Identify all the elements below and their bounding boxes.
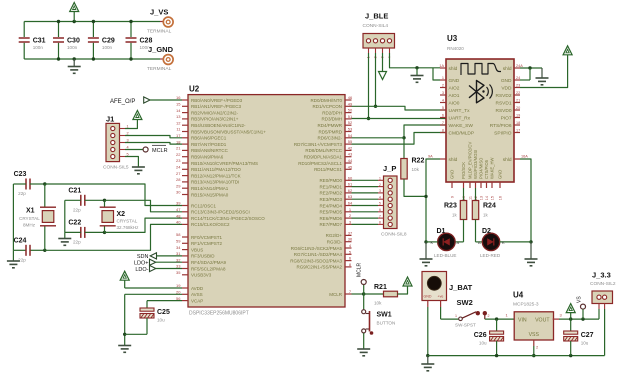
svg-text:7: 7 — [379, 214, 381, 218]
svg-text:10u: 10u — [157, 318, 165, 323]
svg-text:MLDP_EV/PIO2/CV: MLDP_EV/PIO2/CV — [468, 142, 473, 179]
svg-text:RSVD1: RSVD1 — [496, 100, 512, 106]
svg-text:J_BAT: J_BAT — [449, 283, 473, 292]
svg-text:19: 19 — [516, 114, 520, 118]
svg-text:RC13/C3IN3-/PGED2/SOSCI: RC13/C3IN3-/PGED2/SOSCI — [191, 210, 250, 215]
svg-text:UART_Rx: UART_Rx — [449, 115, 471, 121]
svg-text:64: 64 — [348, 201, 353, 206]
svg-text:LDO-: LDO- — [135, 267, 148, 273]
svg-text:CMD/MLDP: CMD/MLDP — [449, 130, 475, 136]
svg-text:RG7/C1IN1-/SD2/PMA4: RG7/C1IN1-/SD2/PMA4 — [294, 252, 343, 257]
svg-text:AVDD: AVDD — [191, 286, 204, 291]
svg-text:32.768kHz: 32.768kHz — [117, 225, 140, 230]
svg-text:8MHz: 8MHz — [23, 223, 36, 228]
svg-text:28: 28 — [176, 177, 181, 182]
svg-text:4: 4 — [379, 195, 381, 199]
svg-text:27: 27 — [176, 171, 181, 176]
svg-text:RB12/AN12/PMA11/TCK: RB12/AN12/PMA11/TCK — [191, 173, 241, 178]
svg-text:VCAP: VCAP — [191, 298, 203, 303]
svg-text:CRYSTAL: CRYSTAL — [19, 216, 40, 221]
svg-text:C27: C27 — [581, 332, 594, 339]
svg-text:PIO/SCK: PIO/SCK — [461, 162, 466, 179]
svg-text:DSPIC33EP256MU806IPT: DSPIC33EP256MU806IPT — [189, 311, 249, 317]
svg-text:RD9/DPLN/ASDA1: RD9/DPLN/ASDA1 — [304, 155, 343, 160]
svg-text:J_P: J_P — [383, 164, 396, 173]
svg-text:6: 6 — [379, 208, 381, 212]
svg-text:RSVD2: RSVD2 — [496, 93, 512, 99]
svg-text:36: 36 — [348, 237, 353, 242]
svg-text:43: 43 — [348, 152, 353, 157]
svg-text:R23: R23 — [444, 203, 457, 210]
svg-text:GND: GND — [450, 170, 455, 179]
svg-text:RE4/PMD4: RE4/PMD4 — [319, 203, 342, 208]
svg-text:21: 21 — [516, 99, 520, 103]
svg-text:4: 4 — [442, 99, 444, 103]
svg-text:1k: 1k — [483, 213, 488, 218]
svg-text:RB2/VMIO/AN2/C2IN2-: RB2/VMIO/AN2/C2IN2- — [191, 110, 239, 115]
svg-text:GND: GND — [498, 170, 503, 179]
svg-text:VUSB3V3: VUSB3V3 — [191, 273, 212, 278]
svg-text:35: 35 — [176, 270, 181, 275]
svg-text:GND: GND — [501, 78, 512, 84]
svg-text:58: 58 — [176, 232, 181, 237]
svg-text:2: 2 — [379, 183, 381, 187]
svg-text:RTS/PIO6: RTS/PIO6 — [490, 123, 512, 129]
svg-text:14: 14 — [176, 108, 181, 113]
svg-text:VBUS: VBUS — [191, 247, 203, 252]
svg-text:RB11/AN11/PMA12/TDO: RB11/AN11/PMA12/TDO — [191, 167, 241, 172]
svg-text:24: 24 — [516, 76, 520, 80]
svg-text:100n: 100n — [67, 45, 78, 50]
svg-text:RD7/C3IN1+/VCMPST3: RD7/C3IN1+/VCMPST3 — [294, 142, 343, 147]
svg-text:MCLR: MCLR — [357, 262, 363, 277]
svg-text:59: 59 — [176, 239, 181, 244]
svg-text:RG2/D+: RG2/D+ — [326, 233, 343, 238]
svg-text:24: 24 — [176, 165, 181, 170]
svg-text:RN4020: RN4020 — [447, 46, 464, 51]
svg-text:30: 30 — [176, 190, 181, 195]
svg-text:RF0/VCMPST1: RF0/VCMPST1 — [191, 235, 223, 240]
svg-text:7: 7 — [442, 121, 444, 125]
svg-text:SW1: SW1 — [377, 312, 392, 319]
svg-text:RE6/PMD6: RE6/PMD6 — [319, 216, 342, 221]
svg-text:C31: C31 — [33, 38, 46, 45]
svg-text:10u: 10u — [581, 341, 589, 346]
svg-text:50: 50 — [348, 108, 353, 113]
svg-text:J_BLE: J_BLE — [365, 12, 388, 21]
svg-text:8: 8 — [442, 129, 444, 133]
svg-text:RB7/AN7/PGED1: RB7/AN7/PGED1 — [191, 142, 227, 147]
svg-text:SW2: SW2 — [457, 298, 473, 307]
svg-text:AIO2: AIO2 — [449, 85, 460, 91]
svg-text:K: K — [431, 240, 434, 245]
svg-text:J1: J1 — [106, 115, 114, 124]
svg-text:UART_Tx: UART_Tx — [449, 108, 471, 114]
svg-text:VSS: VSS — [529, 332, 540, 338]
svg-text:GND: GND — [449, 78, 460, 84]
svg-text:RB5/VBUSON/VBUSST/AN5/C1IN1+: RB5/VBUSON/VBUSST/AN5/C1IN1+ — [191, 129, 266, 134]
svg-text:15: 15 — [491, 196, 495, 200]
svg-text:RD1/VCPCON: RD1/VCPCON — [312, 104, 342, 109]
svg-text:RD5/PMRD: RD5/PMRD — [318, 129, 342, 134]
svg-text:AIO1: AIO1 — [449, 93, 460, 99]
svg-text:R22: R22 — [412, 158, 425, 165]
svg-text:CONN-SIL5: CONN-SIL5 — [103, 165, 129, 171]
svg-text:RB6/AN6/PGEC1: RB6/AN6/PGEC1 — [191, 136, 227, 141]
svg-text:29: 29 — [176, 183, 181, 188]
svg-text:CONN-SIL8: CONN-SIL8 — [381, 232, 407, 238]
svg-text:RF3/USBID: RF3/USBID — [191, 254, 215, 259]
svg-text:100n: 100n — [33, 45, 44, 50]
svg-text:MCLR: MCLR — [329, 292, 343, 297]
svg-text:5: 5 — [379, 202, 381, 206]
svg-text:49: 49 — [348, 101, 353, 106]
svg-text:shld: shld — [449, 157, 458, 163]
svg-text:45: 45 — [348, 164, 353, 169]
svg-text:RF4/SDA2/PMA9: RF4/SDA2/PMA9 — [191, 260, 227, 265]
svg-text:RE3/PMD3: RE3/PMD3 — [319, 197, 342, 202]
svg-text:34: 34 — [176, 245, 181, 250]
svg-text:SW-SPST: SW-SPST — [455, 323, 476, 328]
svg-text:RD6/C3IN2-: RD6/C3IN2- — [317, 136, 342, 141]
svg-text:CONN-SIL2: CONN-SIL2 — [590, 281, 616, 287]
svg-text:TERMINAL: TERMINAL — [147, 29, 172, 35]
svg-text:CTS/PIO5: CTS/PIO5 — [484, 159, 489, 179]
svg-text:RB14/AN14/PMA1: RB14/AN14/PMA1 — [191, 186, 229, 191]
svg-text:14: 14 — [485, 196, 489, 200]
svg-text:18: 18 — [516, 121, 520, 125]
svg-text:10k: 10k — [374, 301, 382, 306]
svg-text:RC15/CLKO/OSC2: RC15/CLKO/OSC2 — [191, 222, 230, 227]
svg-text:53: 53 — [348, 127, 353, 132]
svg-text:3: 3 — [442, 91, 444, 95]
svg-text:LED-BLUE: LED-BLUE — [434, 253, 456, 258]
svg-text:2: 2 — [488, 314, 490, 318]
svg-text:60: 60 — [348, 175, 353, 180]
svg-text:22p: 22p — [73, 207, 81, 212]
svg-text:J_3.3: J_3.3 — [592, 271, 611, 280]
svg-text:RB8/AN8/NIRTCC: RB8/AN8/NIRTCC — [191, 148, 229, 153]
svg-text:A: A — [478, 240, 481, 245]
svg-text:PIO4/MISO: PIO4/MISO — [479, 157, 484, 179]
svg-text:62: 62 — [348, 188, 353, 193]
svg-text:WS/PIO3/MOSI: WS/PIO3/MOSI — [473, 150, 478, 179]
svg-text:15: 15 — [176, 102, 181, 107]
svg-text:RD0/DMH/INT0: RD0/DMH/INT0 — [310, 98, 342, 103]
svg-text:1: 1 — [379, 177, 381, 181]
svg-text:A: A — [457, 240, 460, 245]
svg-text:TERMINAL: TERMINAL — [147, 66, 172, 72]
svg-text:22p: 22p — [18, 191, 26, 196]
svg-text:LED-RED: LED-RED — [480, 253, 501, 258]
svg-text:13: 13 — [176, 114, 181, 119]
svg-text:RB10/AN10/CVREF/PMA13/TMS: RB10/AN10/CVREF/PMA13/TMS — [191, 161, 258, 166]
svg-text:X2: X2 — [117, 211, 126, 218]
svg-text:2: 2 — [442, 84, 444, 88]
svg-text:VIN: VIN — [518, 318, 527, 324]
svg-text:RG6/C1IN3-/SCK2/PMA5: RG6/C1IN3-/SCK2/PMA5 — [291, 246, 343, 251]
svg-text:RC12/OSC1: RC12/OSC1 — [191, 203, 217, 208]
svg-text:PIO7: PIO7 — [501, 115, 512, 121]
svg-text:37: 37 — [348, 230, 353, 235]
svg-text:RB1/AN1/VREF-/PGEC3: RB1/AN1/VREF-/PGEC3 — [191, 104, 242, 109]
svg-text:16A: 16A — [521, 155, 528, 159]
svg-text:CRYSTAL: CRYSTAL — [117, 219, 138, 224]
svg-text:C25: C25 — [157, 309, 170, 316]
svg-text:63: 63 — [348, 194, 353, 199]
svg-text:10k: 10k — [412, 167, 420, 172]
svg-text:42: 42 — [348, 145, 353, 150]
svg-text:6: 6 — [442, 114, 444, 118]
svg-text:46: 46 — [348, 95, 353, 100]
svg-text:VDD: VDD — [501, 85, 512, 91]
svg-text:U2: U2 — [189, 85, 200, 94]
svg-text:D2: D2 — [482, 228, 491, 235]
svg-text:22: 22 — [176, 152, 181, 157]
svg-text:17: 17 — [516, 129, 520, 133]
svg-text:RD2/DPH: RD2/DPH — [322, 110, 342, 115]
svg-text:21: 21 — [176, 146, 181, 151]
svg-text:9: 9 — [451, 196, 455, 198]
svg-text:WAKE_HW: WAKE_HW — [490, 157, 495, 179]
svg-text:RB4/USBOEN/AN4/C1IN2-: RB4/USBOEN/AN4/C1IN2- — [191, 123, 246, 128]
svg-text:R24: R24 — [483, 203, 496, 210]
svg-text:44: 44 — [348, 158, 353, 163]
svg-text:RE2/PMD2: RE2/PMD2 — [319, 191, 342, 196]
svg-text:MCLR: MCLR — [152, 148, 168, 154]
svg-text:RE1/PMD1: RE1/PMD1 — [319, 184, 342, 189]
svg-text:RB0/AN0/VREF+/PGED3: RB0/AN0/VREF+/PGED3 — [191, 98, 243, 103]
svg-text:100n: 100n — [102, 45, 113, 50]
svg-text:C23: C23 — [14, 171, 27, 178]
svg-text:VS: VS — [577, 296, 583, 303]
svg-text:VOUT: VOUT — [535, 318, 550, 324]
svg-text:12: 12 — [176, 120, 181, 125]
svg-text:U4: U4 — [513, 291, 524, 300]
svg-text:C30: C30 — [67, 38, 80, 45]
svg-text:AFE_O/P: AFE_O/P — [110, 99, 135, 105]
svg-text:shld: shld — [503, 66, 512, 72]
svg-text:1A: 1A — [439, 64, 444, 68]
svg-text:RSVD0: RSVD0 — [496, 108, 512, 114]
svg-text:C24: C24 — [14, 237, 27, 244]
svg-text:shld: shld — [449, 66, 458, 72]
svg-text:LDO+: LDO+ — [134, 261, 149, 267]
svg-text:RE0/PMD0: RE0/PMD0 — [319, 178, 342, 183]
svg-text:C28: C28 — [140, 38, 153, 45]
svg-text:23: 23 — [516, 84, 520, 88]
svg-text:C29: C29 — [102, 38, 115, 45]
svg-text:13: 13 — [480, 196, 484, 200]
svg-text:5: 5 — [442, 106, 444, 110]
svg-text:RB9/AN9/PMA6: RB9/AN9/PMA6 — [191, 155, 224, 160]
svg-text:52: 52 — [348, 120, 353, 125]
svg-text:22p: 22p — [73, 239, 81, 244]
svg-text:RG3/D-: RG3/D- — [327, 240, 343, 245]
svg-text:K: K — [502, 240, 505, 245]
svg-text:8: 8 — [379, 221, 381, 225]
svg-text:RD8/DML/NRTCC: RD8/DML/NRTCC — [305, 148, 342, 153]
svg-text:C22: C22 — [68, 219, 81, 226]
svg-text:SPI/PIO: SPI/PIO — [494, 130, 512, 136]
svg-text:RE7/PMD7: RE7/PMD7 — [319, 222, 342, 227]
svg-text:RD10/PMCS2/ASCL1: RD10/PMCS2/ASCL1 — [298, 161, 342, 166]
svg-text:J_GND: J_GND — [148, 45, 174, 54]
svg-text:AIO0: AIO0 — [449, 100, 460, 106]
svg-text:D1: D1 — [437, 228, 446, 235]
svg-text:RB15/AN15/PMA0: RB15/AN15/PMA0 — [191, 192, 229, 197]
svg-text:10u: 10u — [479, 341, 487, 346]
svg-text:RG9/C2IN1-/SS/PMA2: RG9/C2IN1-/SS/PMA2 — [296, 265, 342, 270]
svg-text:55: 55 — [348, 139, 353, 144]
svg-text:AVSS: AVSS — [191, 292, 203, 297]
svg-text:16: 16 — [499, 196, 503, 200]
svg-text:shld: shld — [503, 157, 512, 163]
svg-text:RF5/SCL2/PMA8: RF5/SCL2/PMA8 — [191, 266, 226, 271]
svg-text:+ve: +ve — [438, 295, 444, 299]
svg-text:54: 54 — [348, 133, 353, 138]
svg-text:RC14/T1CK/C3IN1-/PGEC2/SOSCO: RC14/T1CK/C3IN1-/PGEC2/SOSCO — [191, 216, 265, 221]
svg-text:RD11/PMCS1: RD11/PMCS1 — [314, 167, 342, 172]
svg-text:22: 22 — [516, 91, 520, 95]
svg-text:1: 1 — [442, 76, 444, 80]
svg-text:C21: C21 — [68, 187, 81, 194]
svg-text:RD3/DMH: RD3/DMH — [321, 117, 342, 122]
svg-text:11: 11 — [469, 196, 473, 200]
svg-text:3: 3 — [379, 189, 381, 193]
svg-text:RG8/C2IN3-/SDO2/PMA3: RG8/C2IN3-/SDO2/PMA3 — [290, 258, 342, 263]
svg-text:20: 20 — [516, 106, 520, 110]
svg-text:CONN-SIL4: CONN-SIL4 — [363, 23, 389, 29]
svg-text:WAKE_SW: WAKE_SW — [449, 123, 474, 129]
svg-text:1k: 1k — [452, 213, 457, 218]
svg-text:X1: X1 — [26, 208, 35, 215]
svg-text:BUTTON: BUTTON — [377, 321, 396, 326]
svg-text:RB3/VPIO/AN3/C2IN1+: RB3/VPIO/AN3/C2IN1+ — [191, 117, 239, 122]
svg-text:U3: U3 — [447, 34, 458, 43]
svg-text:61: 61 — [348, 182, 353, 187]
svg-text:RD4/PMWR: RD4/PMWR — [318, 123, 343, 128]
svg-text:RF1/VCMPST2: RF1/VCMPST2 — [191, 241, 223, 246]
svg-text:23: 23 — [176, 158, 181, 163]
svg-text:SDN: SDN — [137, 254, 149, 260]
svg-text:9A: 9A — [428, 155, 433, 159]
svg-text:RE5/PMD5: RE5/PMD5 — [319, 210, 342, 215]
svg-text:MCP1825-3: MCP1825-3 — [513, 302, 539, 308]
svg-text:J_VS: J_VS — [150, 8, 168, 17]
svg-text:RB13/AN13/PMA10/TDI: RB13/AN13/PMA10/TDI — [191, 180, 239, 185]
svg-text:1: 1 — [455, 314, 457, 318]
svg-text:R21: R21 — [374, 284, 387, 291]
svg-text:GND: GND — [424, 295, 432, 299]
svg-text:C26: C26 — [474, 332, 487, 339]
